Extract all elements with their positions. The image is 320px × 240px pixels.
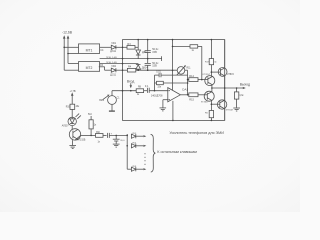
- svg-text:-2,7В: -2,7В: [70, 90, 76, 93]
- svg-text:Д311: Д311: [110, 50, 116, 53]
- svg-text:Д814: Д814: [142, 66, 148, 69]
- svg-text:R19: R19: [66, 107, 71, 109]
- svg-text:Усилитель телефонов для ЭМИ: Усилитель телефонов для ЭМИ: [169, 131, 224, 135]
- svg-text:VD1: VD1: [111, 42, 116, 45]
- svg-text:КТ315Г: КТ315Г: [203, 74, 211, 76]
- svg-text:15В: 15В: [152, 65, 157, 68]
- svg-text:АЛ307: АЛ307: [62, 124, 70, 127]
- svg-text:К остальным клавишам: К остальным клавишам: [157, 150, 197, 154]
- svg-text:Д814: Д814: [142, 51, 148, 54]
- svg-text:0,1: 0,1: [145, 85, 149, 88]
- svg-text:DA1: DA1: [182, 87, 188, 91]
- svg-text:МТ2: МТ2: [86, 66, 93, 70]
- svg-text:КТ361Г: КТ361Г: [201, 102, 209, 104]
- svg-text:Выход: Выход: [240, 82, 250, 86]
- svg-text:Д311: Д311: [110, 73, 116, 76]
- svg-text:КТ315Б: КТ315Б: [77, 139, 86, 141]
- svg-text:КТ814Г: КТ814Г: [226, 110, 234, 112]
- svg-text:-12,6В: -12,6В: [62, 30, 73, 34]
- svg-text:0,01: 0,01: [156, 71, 161, 73]
- svg-text:R14: R14: [189, 75, 194, 78]
- svg-text:КТ815: КТ815: [227, 74, 234, 76]
- svg-text:ПОВ. 1-0В: ПОВ. 1-0В: [106, 62, 117, 64]
- svg-text:VD2: VD2: [111, 65, 116, 68]
- svg-text:15В: 15В: [152, 51, 157, 54]
- svg-text:3к: 3к: [214, 62, 216, 64]
- svg-text:МТ1: МТ1: [86, 48, 93, 52]
- svg-text:ПОВ. 1-0В: ПОВ. 1-0В: [106, 57, 117, 59]
- svg-text:Вход: Вход: [127, 80, 135, 84]
- svg-text:140УД708: 140УД708: [151, 95, 163, 98]
- svg-text:R15: R15: [189, 99, 194, 102]
- svg-text:ВМ1: ВМ1: [99, 100, 104, 102]
